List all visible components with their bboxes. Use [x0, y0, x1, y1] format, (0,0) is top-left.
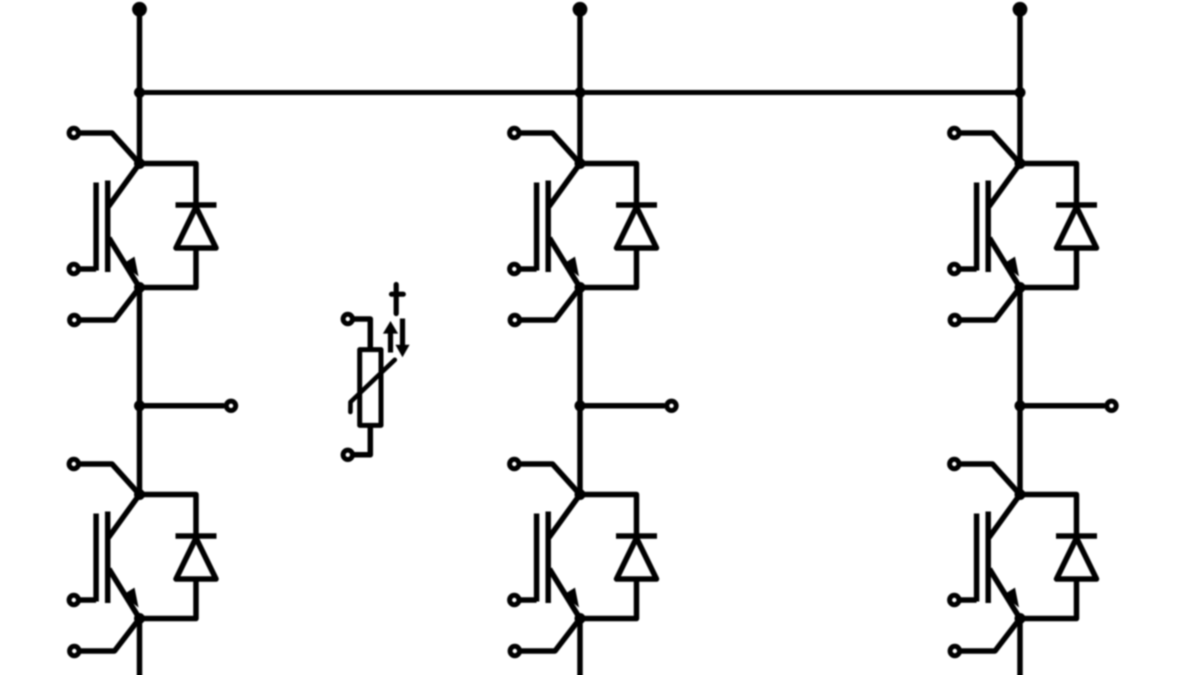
wire: auxiliary collector terminal to collector node (Q4) — [79, 464, 140, 495]
wire: collector node to diode D2 cathode — [580, 164, 637, 206]
wire: auxiliary emitter terminal to emitter node (Q1) — [79, 288, 140, 321]
node: collector junction of Q5 — [575, 489, 586, 500]
resistor R1 (NTC thermistor): body — [360, 350, 381, 426]
transistor Q1: body bar — [105, 181, 111, 273]
diode D5: triangle — [617, 538, 657, 579]
wire: collector node to diode D1 cathode — [140, 164, 197, 206]
transistor Q2: body bar — [545, 181, 551, 273]
diode D2: triangle — [617, 207, 657, 248]
wire: auxiliary collector terminal to collector node (Q5) — [519, 464, 580, 495]
wire: auxiliary collector terminal to collector node (Q1) — [79, 133, 140, 164]
wire: diode D2 anode to emitter node — [580, 248, 637, 288]
node: collector junction of Q3 — [1015, 158, 1026, 169]
transistor Q2 (high-side phase V IGBT): gate bar — [534, 183, 540, 271]
wire: phase V output — [580, 403, 665, 409]
terminal: gate of Q1 — [69, 264, 78, 273]
terminal: thermistor pin 2 — [343, 450, 352, 459]
transistor Q4 (low-side phase U IGBT): gate bar — [93, 514, 99, 602]
wire: emitter of Q4 down to DC- (cropped at image edge) — [137, 619, 143, 675]
node: emitter junction of Q1 — [134, 282, 145, 293]
wire: gate terminal to gate of Q2 — [519, 266, 537, 272]
terminal: gate of Q6 — [950, 595, 959, 604]
wire: auxiliary collector terminal to collector node (Q6) — [959, 464, 1020, 495]
diode D3: cathode bar — [1056, 202, 1097, 208]
terminal: phase U output — [226, 401, 235, 410]
terminal: DC+ terminal dot (leg 3) — [1013, 2, 1028, 17]
wire: auxiliary emitter terminal to emitter node (Q2) — [520, 288, 581, 321]
wire: emitter of Q1 down to collector of Q4 — [137, 288, 143, 495]
wire: collector node to diode D3 cathode — [1020, 164, 1077, 206]
transistor Q5: emitter arrow — [563, 588, 579, 608]
wire: collector node to diode D6 cathode — [1020, 495, 1077, 537]
diode D1: cathode bar — [176, 202, 217, 208]
node: emitter junction of Q5 — [575, 613, 586, 624]
transistor Q4: body bar — [105, 512, 111, 604]
transistor Q1: collector lead — [109, 164, 140, 207]
wire: DC+ terminal down to collector of Q1 — [137, 9, 143, 163]
transistor Q3: body bar — [985, 181, 991, 273]
diode D4: cathode bar — [176, 533, 217, 539]
DC+ bus — [140, 90, 1021, 95]
wire: diode D1 anode to emitter node — [140, 248, 197, 288]
node: emitter junction of Q6 — [1015, 613, 1026, 624]
transistor Q2: emitter lead — [550, 238, 581, 288]
diode D6: triangle — [1057, 538, 1097, 579]
transistor Q6: emitter arrow — [1003, 588, 1019, 608]
wire: thermistor pin 1 to resistor body — [352, 319, 370, 351]
wire: gate terminal to gate of Q5 — [519, 597, 537, 603]
terminal: auxiliary collector of Q5 — [510, 459, 519, 468]
terminal: auxiliary emitter of Q5 — [510, 646, 519, 655]
wire: collector node to diode D4 cathode — [140, 495, 197, 537]
terminal: phase V output — [667, 401, 676, 410]
transistor Q4: emitter lead — [109, 569, 140, 619]
transistor Q6: body bar — [985, 512, 991, 604]
transistor Q3: collector lead — [989, 164, 1020, 207]
diode D1: triangle — [176, 207, 216, 248]
wire: diode D5 anode to emitter node — [580, 579, 637, 619]
wire: auxiliary emitter terminal to emitter node (Q3) — [960, 288, 1021, 321]
node: junction of leg 3 with DC+ bus — [1015, 87, 1026, 98]
wire: auxiliary collector terminal to collector node (Q2) — [519, 133, 580, 164]
wire: emitter of Q3 down to collector of Q6 — [1017, 288, 1023, 495]
terminal: gate of Q2 — [510, 264, 519, 273]
terminal: phase W output — [1107, 401, 1116, 410]
node: phase U output junction — [134, 400, 145, 411]
terminal: thermistor pin 1 — [343, 314, 352, 323]
wire: gate terminal to gate of Q3 — [959, 266, 977, 272]
terminal: auxiliary collector of Q3 — [950, 128, 959, 137]
node: junction of leg 2 with DC+ bus — [575, 87, 586, 98]
node: emitter junction of Q4 — [134, 613, 145, 624]
node: junction of leg 1 with DC+ bus — [134, 87, 145, 98]
transistor Q6: collector lead — [989, 495, 1020, 538]
terminal: auxiliary emitter of Q3 — [950, 315, 959, 324]
terminal: auxiliary emitter of Q1 — [70, 315, 79, 324]
node: collector junction of Q6 — [1015, 489, 1026, 500]
terminal: auxiliary emitter of Q6 — [950, 646, 959, 655]
transistor Q1 (high-side phase U IGBT): gate bar — [93, 183, 99, 271]
node: phase W output junction — [1015, 400, 1026, 411]
terminal: DC+ terminal dot (leg 2) — [573, 2, 588, 17]
wire: auxiliary collector terminal to collector node (Q3) — [959, 133, 1020, 164]
wire: emitter of Q2 down to collector of Q5 — [577, 288, 583, 495]
wire: gate terminal to gate of Q1 — [79, 266, 97, 272]
wire: auxiliary emitter terminal to emitter node (Q6) — [960, 619, 1021, 652]
terminal: DC+ terminal dot (leg 1) — [132, 2, 147, 17]
resistor R1: NTC strike line — [350, 360, 394, 412]
node: phase V output junction — [575, 400, 586, 411]
transistor Q4: collector lead — [109, 495, 140, 538]
transistor Q6: emitter lead — [990, 569, 1021, 619]
wire: diode D3 anode to emitter node — [1020, 248, 1077, 288]
terminal: auxiliary emitter of Q2 — [510, 315, 519, 324]
wire: emitter of Q5 down to DC- (cropped at image edge) — [577, 619, 583, 675]
transistor Q5: collector lead — [549, 495, 580, 538]
terminal: auxiliary collector of Q1 — [69, 128, 78, 137]
wire: DC+ terminal down to collector of Q2 — [577, 9, 583, 163]
transistor Q3: emitter lead — [990, 238, 1021, 288]
wire: gate terminal to gate of Q6 — [959, 597, 977, 603]
node: emitter junction of Q3 — [1015, 282, 1026, 293]
label: temperature up arrow — [383, 321, 398, 353]
diode D3: triangle — [1057, 207, 1097, 248]
wire: collector node to diode D5 cathode — [580, 495, 637, 537]
terminal: gate of Q4 — [69, 595, 78, 604]
transistor Q3 (high-side phase W IGBT): gate bar — [974, 183, 980, 271]
transistor Q4: emitter arrow — [123, 588, 139, 608]
wire: gate terminal to gate of Q4 — [79, 597, 97, 603]
diode D6: cathode bar — [1056, 533, 1097, 539]
node: emitter junction of Q2 — [575, 282, 586, 293]
wire: resistor body to thermistor pin 2 — [352, 425, 370, 454]
wire: DC+ terminal down to collector of Q3 — [1017, 9, 1023, 163]
wire: phase U output — [140, 403, 225, 409]
label: resistance down arrow — [395, 319, 409, 358]
transistor Q1: emitter lead — [109, 238, 140, 288]
transistor Q2: collector lead — [549, 164, 580, 207]
terminal: auxiliary collector of Q6 — [950, 459, 959, 468]
terminal: auxiliary collector of Q4 — [69, 459, 78, 468]
transistor Q5: body bar — [545, 512, 551, 604]
node: collector junction of Q1 — [134, 158, 145, 169]
wire: diode D4 anode to emitter node — [140, 579, 197, 619]
transistor Q3: emitter arrow — [1003, 257, 1019, 277]
transistor Q1: emitter arrow — [123, 257, 139, 277]
wire: auxiliary emitter terminal to emitter node (Q5) — [520, 619, 581, 652]
transistor Q2: emitter arrow — [563, 257, 579, 277]
terminal: auxiliary emitter of Q4 — [70, 646, 79, 655]
terminal: gate of Q3 — [950, 264, 959, 273]
terminal: auxiliary collector of Q2 — [510, 128, 519, 137]
diode D5: cathode bar — [616, 533, 657, 539]
transistor Q6 (low-side phase W IGBT): gate bar — [974, 514, 980, 602]
node: collector junction of Q2 — [575, 158, 586, 169]
wire: emitter of Q6 down to DC- (cropped at image edge) — [1017, 619, 1023, 675]
transistor Q5 (low-side phase V IGBT): gate bar — [534, 514, 540, 602]
node: collector junction of Q4 — [134, 489, 145, 500]
diode D2: cathode bar — [616, 202, 657, 208]
diode D4: triangle — [176, 538, 216, 579]
label: temperature symbol t — [392, 285, 404, 314]
wire: auxiliary emitter terminal to emitter node (Q4) — [79, 619, 140, 652]
wire: diode D6 anode to emitter node — [1020, 579, 1077, 619]
transistor Q5: emitter lead — [550, 569, 581, 619]
wire: phase W output — [1020, 403, 1105, 409]
terminal: gate of Q5 — [510, 595, 519, 604]
